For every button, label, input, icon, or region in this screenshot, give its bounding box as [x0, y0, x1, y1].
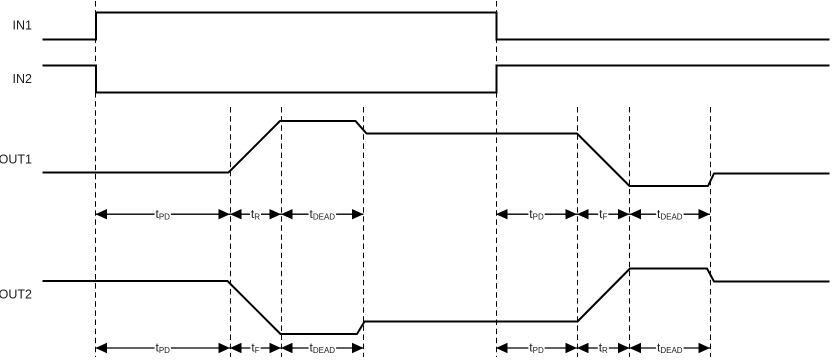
OUT1 waveform [43, 121, 830, 186]
label tR (OUT1 tR) [250, 207, 261, 222]
OUT2 tR arrow shaft [577, 343, 630, 353]
label tDEAD (OUT2 tDEAD left) [309, 341, 337, 356]
OUT2 tDEAD right arrow shaft [630, 343, 711, 353]
OUT1 tDEAD right arrow shaft [630, 209, 711, 219]
label tPD (OUT1 tPD left) [155, 207, 171, 222]
dashed guide line OUT1 rise end / dead-time start (x=281.5) [281, 107, 283, 357]
dashed guide line OUT1 fall start / tF start (x=577.5) [577, 107, 579, 357]
OUT1 tPD right arrow shaft [496, 209, 577, 219]
svg-text:OUT1: OUT1 [0, 153, 32, 167]
OUT2 tPD left arrow shaft [96, 343, 231, 353]
label tDEAD (OUT1 tDEAD right) [656, 207, 684, 222]
dashed guide line t0 input edge (x=95.5) [95, 1, 97, 357]
label tPD (OUT1 tPD right) [528, 207, 544, 222]
OUT1 tDEAD left arrow shaft [281, 209, 364, 219]
signal label OUT2 [0, 287, 32, 301]
OUT2 tPD right arrow shaft [496, 343, 577, 353]
dashed guide line t1 input edge (x=496.5) [496, 1, 498, 357]
svg-text:OUT2: OUT2 [0, 287, 32, 301]
label tF (OUT1 tF) [598, 207, 608, 222]
OUT1 tPD left arrow shaft [96, 209, 231, 219]
OUT2 tF arrow shaft [230, 343, 281, 353]
dashed guide line OUT1 fall end / dead-time start right (x=629.5) [629, 107, 631, 357]
OUT2 tDEAD left arrow shaft [281, 343, 364, 353]
signal label OUT1 [0, 153, 32, 167]
dashed guide line dead-time end right (x=710.5) [710, 107, 712, 357]
label tF (OUT2 tF) [251, 341, 261, 356]
label tDEAD (OUT2 tDEAD right) [656, 341, 684, 356]
svg-text:IN1: IN1 [13, 18, 33, 32]
label tDEAD (OUT1 tDEAD left) [309, 207, 337, 222]
OUT2 waveform [43, 269, 830, 335]
IN2 waveform [43, 66, 830, 93]
dashed guide line OUT1 rise start / tR start (x=230.5) [230, 107, 232, 357]
label tR (OUT2 tR) [598, 341, 609, 356]
OUT1 tR arrow shaft [230, 209, 281, 219]
IN1 waveform [43, 13, 830, 40]
signal label IN1 [13, 18, 33, 32]
dashed guide line dead-time end left (x=363.5) [363, 107, 365, 357]
label tPD (OUT2 tPD left) [155, 341, 171, 356]
svg-text:IN2: IN2 [13, 72, 33, 86]
signal label IN2 [13, 72, 33, 86]
OUT1 tF arrow shaft [577, 209, 630, 219]
label tPD (OUT2 tPD right) [528, 341, 544, 356]
